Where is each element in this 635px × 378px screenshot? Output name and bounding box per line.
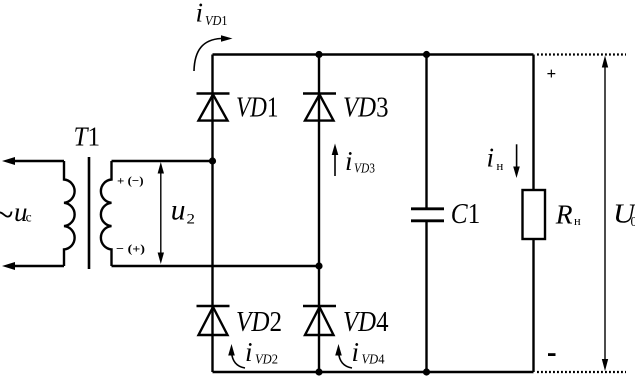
resistor R (load) body [523,190,546,239]
wire: secondary bottom lead [112,265,320,267]
node: secondary top to bridge [209,157,216,164]
U0 measurement double arrow [602,56,608,372]
wire: C1 branch vertical (lower) [425,222,427,373]
svg-text:+: + [547,64,557,83]
arrow: i_VD1 curved [194,35,233,71]
wire: C1 branch vertical (upper) [425,55,427,209]
svg-text:VD3: VD3 [354,162,375,177]
diode VD4 [303,306,336,335]
arrow: i_n current (down) [513,144,520,178]
wire: dotted top extension [537,53,626,55]
node: top of C1 branch [423,51,430,58]
svg-text:i: i [345,146,353,176]
svg-text:VD1: VD1 [205,14,228,29]
wire: R branch vertical [532,55,534,373]
svg-text:VD2: VD2 [236,307,282,338]
svg-text:T1: T1 [74,122,101,152]
svg-text:+ (−): + (−) [117,174,144,188]
svg-text:− (+): − (+) [116,242,145,256]
node: bottom of C1 [423,368,430,375]
wire: VD1/VD2 branch vertical [211,55,213,373]
arrow: i_VD4 curved [335,344,352,368]
wire: top bus [213,53,534,55]
node: top of VD3 branch [315,51,322,58]
label − output polarity [548,353,556,356]
arrow: i_VD3 current (up) [332,144,339,177]
diode VD3 [303,94,336,121]
wire: dotted bottom extension [537,371,626,373]
svg-text:2: 2 [187,212,196,228]
svg-text:~: ~ [0,195,13,235]
node: bottom of VD4 [315,368,322,375]
svg-text:VD3: VD3 [343,93,389,124]
wire: primary top lead with left arrow [2,157,64,165]
diode VD1 [197,94,230,121]
svg-text:u: u [171,195,186,227]
svg-text:0: 0 [631,214,635,229]
svg-text:i: i [487,143,495,173]
u2 measurement double arrow [158,162,164,264]
capacitor C1 plates [411,209,444,221]
transformer T1 secondary winding [101,161,112,266]
wire: VD3/VD4 branch vertical [318,55,320,373]
wire: secondary top lead [112,160,213,162]
wire: primary bottom lead with left arrow [2,262,64,270]
svg-text:i: i [245,337,253,367]
svg-text:н: н [496,158,503,173]
svg-text:VD1: VD1 [236,93,279,124]
svg-text:VD4: VD4 [362,353,385,368]
transformer T1 primary winding [64,161,75,266]
arrow: i_VD2 curved [228,344,245,368]
transformer core [88,157,91,269]
node: secondary bottom to VD3/VD4 [315,262,322,269]
svg-text:н: н [574,214,581,228]
svg-text:i: i [352,337,360,367]
svg-text:VD2: VD2 [255,353,278,368]
svg-text:C1: C1 [451,199,481,230]
diode VD2 [197,306,230,335]
svg-text:VD4: VD4 [343,307,389,338]
svg-text:i: i [196,0,204,28]
wire: bottom bus [213,371,534,373]
svg-text:с: с [26,210,32,225]
svg-text:R: R [555,199,573,230]
